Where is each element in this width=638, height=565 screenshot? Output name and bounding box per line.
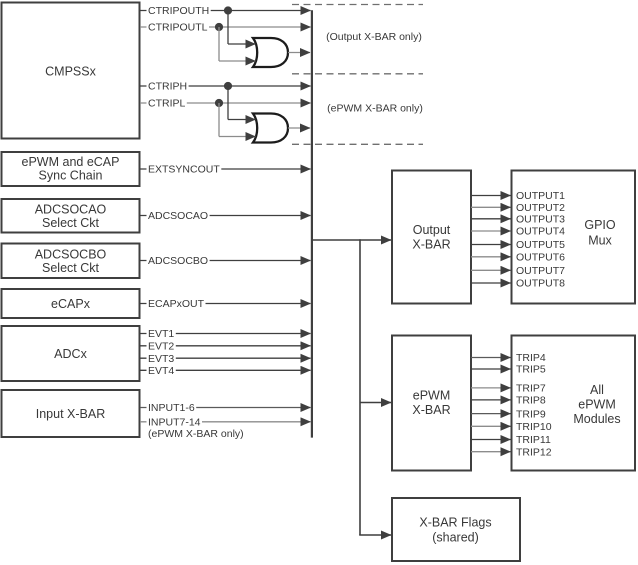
svg-text:CTRIPL: CTRIPL <box>148 98 186 110</box>
svg-text:All: All <box>590 383 604 397</box>
svg-text:OUTPUT3: OUTPUT3 <box>516 214 565 226</box>
svg-text:TRIP10: TRIP10 <box>516 421 552 433</box>
svg-text:ADCSOCBO: ADCSOCBO <box>35 247 107 261</box>
svg-text:CTRIPH: CTRIPH <box>148 81 187 93</box>
svg-text:Select Ckt: Select Ckt <box>42 261 99 275</box>
svg-text:OUTPUT4: OUTPUT4 <box>516 226 565 238</box>
svg-text:ePWM: ePWM <box>578 397 616 411</box>
svg-text:TRIP8: TRIP8 <box>516 395 546 407</box>
svg-text:TRIP12: TRIP12 <box>516 446 552 458</box>
svg-text:ECAPxOUT: ECAPxOUT <box>148 298 205 310</box>
svg-text:TRIP9: TRIP9 <box>516 408 546 420</box>
svg-text:ADCSOCAO: ADCSOCAO <box>35 202 107 216</box>
svg-text:OUTPUT5: OUTPUT5 <box>516 239 565 251</box>
svg-text:INPUT7-14: INPUT7-14 <box>148 417 201 429</box>
svg-text:TRIP11: TRIP11 <box>516 434 551 446</box>
svg-text:OUTPUT6: OUTPUT6 <box>516 252 565 264</box>
svg-text:X-BAR: X-BAR <box>412 403 450 417</box>
svg-text:ePWM and eCAP: ePWM and eCAP <box>22 155 120 169</box>
svg-text:Sync Chain: Sync Chain <box>39 169 103 183</box>
svg-text:CTRIPOUTL: CTRIPOUTL <box>148 22 208 34</box>
svg-text:CTRIPOUTH: CTRIPOUTH <box>148 5 209 17</box>
svg-text:OUTPUT7: OUTPUT7 <box>516 265 565 277</box>
svg-text:X-BAR Flags: X-BAR Flags <box>419 515 491 529</box>
svg-text:Output: Output <box>413 223 451 237</box>
svg-text:Modules: Modules <box>573 412 620 426</box>
svg-text:EVT4: EVT4 <box>148 365 174 377</box>
svg-text:eCAPx: eCAPx <box>51 297 91 311</box>
svg-text:ePWM: ePWM <box>413 389 451 403</box>
svg-text:(Output X-BAR only): (Output X-BAR only) <box>326 31 422 43</box>
svg-text:ADCSOCBO: ADCSOCBO <box>148 255 208 267</box>
svg-text:Mux: Mux <box>588 233 612 247</box>
svg-text:EVT3: EVT3 <box>148 353 174 365</box>
svg-text:TRIP7: TRIP7 <box>516 383 546 395</box>
svg-text:(ePWM X-BAR only): (ePWM X-BAR only) <box>148 428 244 440</box>
svg-text:X-BAR: X-BAR <box>412 238 450 252</box>
svg-text:(shared): (shared) <box>432 530 479 544</box>
svg-text:GPIO: GPIO <box>584 218 616 232</box>
svg-text:ADCx: ADCx <box>54 347 87 361</box>
svg-text:CMPSSx: CMPSSx <box>45 64 96 78</box>
svg-text:TRIP5: TRIP5 <box>516 364 546 376</box>
svg-text:(ePWM X-BAR only): (ePWM X-BAR only) <box>327 103 423 115</box>
svg-text:EVT2: EVT2 <box>148 341 174 353</box>
svg-text:TRIP4: TRIP4 <box>516 352 546 364</box>
svg-text:INPUT1-6: INPUT1-6 <box>148 402 195 414</box>
svg-text:OUTPUT8: OUTPUT8 <box>516 278 565 290</box>
svg-text:Select Ckt: Select Ckt <box>42 216 99 230</box>
svg-text:OUTPUT2: OUTPUT2 <box>516 202 565 214</box>
svg-text:ADCSOCAO: ADCSOCAO <box>148 210 208 222</box>
svg-text:EVT1: EVT1 <box>148 328 174 340</box>
svg-text:OUTPUT1: OUTPUT1 <box>516 190 565 202</box>
svg-text:EXTSYNCOUT: EXTSYNCOUT <box>148 164 220 176</box>
svg-text:Input X-BAR: Input X-BAR <box>36 407 105 421</box>
